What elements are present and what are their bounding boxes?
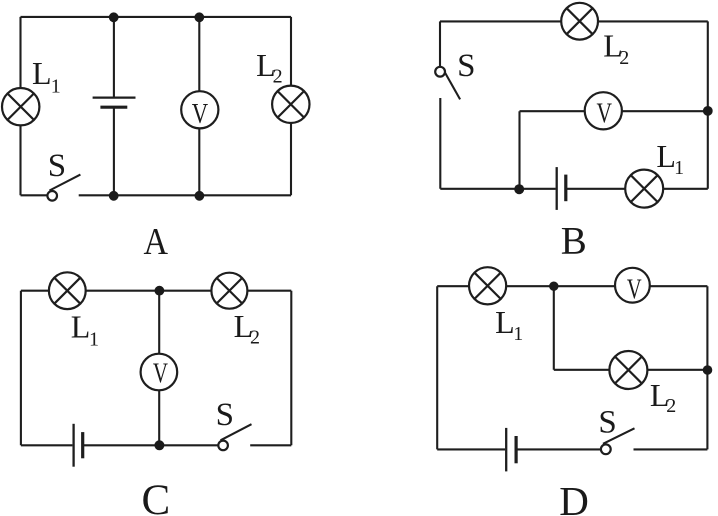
svg-text:V: V [627,274,642,306]
svg-text:D: D [559,478,589,516]
svg-text:2: 2 [666,395,676,417]
svg-text:V: V [192,98,208,130]
svg-text:1: 1 [513,323,523,345]
svg-text:S: S [48,148,66,184]
svg-text:1: 1 [51,75,61,97]
svg-text:1: 1 [89,328,99,350]
svg-text:C: C [141,477,170,516]
svg-text:L: L [656,138,676,174]
svg-text:S: S [457,48,475,84]
svg-text:2: 2 [619,47,629,69]
svg-text:B: B [561,219,587,262]
svg-text:L: L [71,308,91,344]
svg-text:2: 2 [273,66,283,88]
svg-text:S: S [216,397,234,433]
svg-text:L: L [32,55,52,91]
svg-text:V: V [597,98,613,130]
svg-text:V: V [153,358,168,390]
svg-text:A: A [144,221,169,263]
svg-text:L: L [495,304,515,340]
svg-text:2: 2 [250,327,260,349]
svg-text:1: 1 [674,157,684,179]
svg-text:S: S [598,404,616,440]
